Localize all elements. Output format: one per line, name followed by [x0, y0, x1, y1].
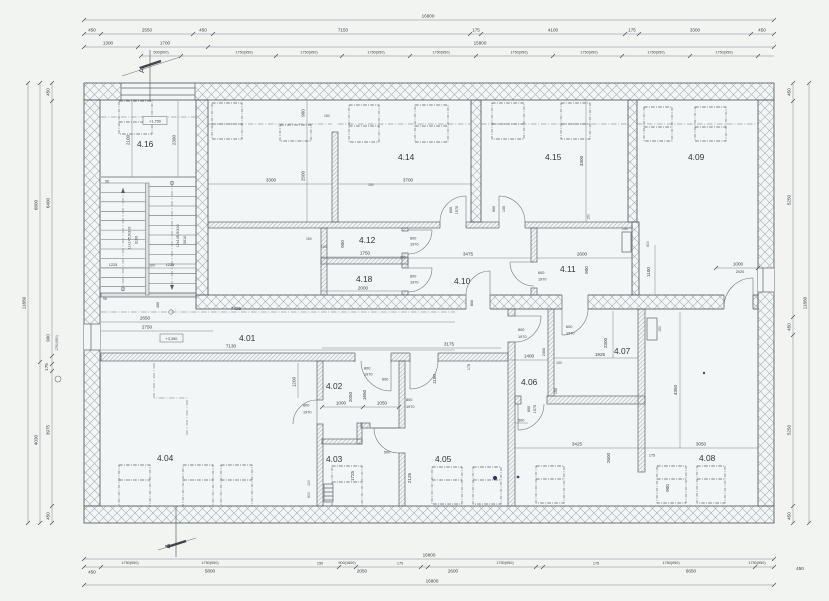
svg-text:1750(950): 1750(950)	[432, 51, 450, 55]
svg-text:1750(950): 1750(950)	[235, 51, 253, 55]
svg-text:3050: 3050	[696, 442, 707, 447]
svg-text:150: 150	[554, 388, 558, 394]
svg-text:2390: 2390	[172, 134, 177, 145]
svg-text:2300: 2300	[542, 348, 546, 356]
svg-text:100: 100	[321, 245, 327, 249]
svg-text:175: 175	[44, 363, 49, 371]
svg-text:100: 100	[502, 206, 506, 212]
svg-text:5250: 5250	[787, 194, 792, 205]
svg-text:800: 800	[303, 404, 309, 408]
svg-text:100: 100	[556, 361, 562, 365]
svg-text:800: 800	[364, 367, 370, 371]
svg-text:4.08: 4.08	[699, 453, 716, 463]
svg-text:4.04: 4.04	[157, 453, 174, 463]
svg-text:800: 800	[406, 398, 412, 402]
svg-text:1750(950): 1750(950)	[201, 561, 219, 565]
svg-text:1750(950): 1750(950)	[510, 51, 528, 55]
svg-text:7150: 7150	[338, 28, 349, 33]
svg-text:1200: 1200	[292, 376, 297, 387]
svg-text:16800: 16800	[426, 579, 439, 584]
svg-text:450: 450	[787, 88, 792, 96]
svg-text:150: 150	[587, 214, 591, 220]
svg-text:450: 450	[88, 570, 96, 575]
svg-text:450: 450	[758, 28, 766, 33]
svg-text:1750(950): 1750(950)	[55, 335, 59, 350]
svg-text:150: 150	[317, 562, 323, 566]
svg-text:4.11: 4.11	[560, 264, 576, 274]
svg-text:1750(950): 1750(950)	[496, 561, 514, 565]
svg-text:2100: 2100	[126, 134, 131, 145]
svg-text:2600: 2600	[448, 569, 459, 574]
svg-text:1750: 1750	[360, 251, 371, 256]
svg-text:11880: 11880	[803, 296, 808, 309]
svg-text:900: 900	[492, 206, 496, 212]
svg-text:58: 58	[105, 180, 109, 184]
svg-text:2050: 2050	[348, 391, 353, 402]
svg-text:16800: 16800	[422, 14, 435, 19]
svg-text:900: 900	[584, 266, 589, 274]
svg-text:2600: 2600	[606, 452, 611, 463]
svg-text:3300: 3300	[266, 178, 277, 183]
svg-text:600: 600	[527, 406, 531, 412]
svg-text:4350: 4350	[673, 384, 678, 395]
svg-text:4.15: 4.15	[545, 152, 562, 162]
svg-text:6800: 6800	[34, 199, 39, 210]
svg-text:1750(950): 1750(950)	[121, 561, 139, 565]
svg-text:4.16: 4.16	[137, 139, 154, 149]
svg-text:2500: 2500	[301, 170, 306, 181]
svg-text:5250: 5250	[787, 424, 792, 435]
svg-text:4.03: 4.03	[326, 454, 343, 464]
svg-text:1750(950): 1750(950)	[580, 51, 598, 55]
svg-text:4.01: 4.01	[239, 333, 256, 343]
svg-text:600: 600	[307, 492, 311, 498]
svg-text:450: 450	[787, 323, 792, 331]
svg-text:2300: 2300	[603, 337, 608, 348]
svg-text:+3,350: +3,350	[166, 337, 178, 341]
svg-text:1000: 1000	[336, 401, 347, 406]
svg-text:600: 600	[538, 271, 544, 275]
svg-text:1000: 1000	[733, 262, 744, 267]
svg-text:600: 600	[646, 241, 650, 247]
svg-text:+1,750: +1,750	[149, 120, 161, 124]
svg-text:1970: 1970	[566, 332, 574, 336]
svg-text:175: 175	[467, 364, 471, 370]
svg-text:1725: 1725	[350, 470, 355, 481]
svg-text:1970: 1970	[455, 206, 459, 214]
svg-text:2750: 2750	[142, 325, 153, 330]
svg-text:11x145,9/310: 11x145,9/310	[128, 227, 132, 250]
svg-text:4100: 4100	[548, 28, 559, 33]
svg-text:175: 175	[397, 562, 403, 566]
svg-text:900(1800): 900(1800)	[338, 561, 356, 565]
svg-text:3475: 3475	[463, 252, 474, 257]
svg-text:100: 100	[307, 480, 311, 486]
svg-text:1400: 1400	[524, 354, 535, 359]
svg-text:1970: 1970	[406, 405, 414, 409]
svg-text:4.12: 4.12	[359, 235, 376, 245]
svg-text:7425: 7425	[231, 306, 242, 311]
svg-text:1300: 1300	[103, 41, 114, 46]
svg-text:4.05: 4.05	[435, 454, 452, 464]
svg-text:150: 150	[622, 227, 628, 231]
svg-text:3425: 3425	[572, 442, 583, 447]
svg-text:4.14: 4.14	[398, 152, 415, 162]
svg-text:450: 450	[46, 88, 51, 96]
svg-text:1225: 1225	[109, 263, 117, 267]
svg-text:500(500): 500(500)	[153, 51, 169, 55]
svg-text:1970: 1970	[518, 335, 526, 339]
svg-text:6400: 6400	[46, 197, 51, 208]
svg-text:6650: 6650	[686, 569, 697, 574]
svg-text:175: 175	[472, 28, 480, 33]
svg-text:2600: 2600	[577, 252, 588, 257]
svg-text:500: 500	[518, 419, 524, 423]
svg-text:150: 150	[368, 183, 374, 187]
svg-text:1750(950): 1750(950)	[662, 561, 680, 565]
svg-text:7130: 7130	[226, 344, 237, 349]
svg-text:1970: 1970	[303, 411, 311, 415]
svg-text:A: A	[165, 543, 172, 548]
svg-text:2125: 2125	[407, 472, 412, 483]
svg-text:450: 450	[787, 512, 792, 520]
svg-text:4.09: 4.09	[688, 152, 705, 162]
svg-text:100: 100	[400, 256, 406, 260]
svg-text:1925: 1925	[595, 352, 606, 357]
svg-text:900: 900	[340, 240, 345, 248]
svg-text:1970: 1970	[533, 405, 537, 413]
svg-text:2000: 2000	[358, 286, 369, 291]
svg-text:4.02: 4.02	[326, 381, 343, 391]
svg-text:175: 175	[593, 562, 599, 566]
svg-text:3175: 3175	[444, 342, 455, 347]
svg-text:3300: 3300	[579, 155, 584, 166]
svg-text:3975: 3975	[46, 424, 51, 435]
svg-text:500: 500	[384, 451, 390, 455]
svg-text:3300: 3300	[690, 28, 701, 33]
svg-text:11880: 11880	[22, 296, 27, 309]
svg-text:3100: 3100	[135, 236, 139, 244]
svg-text:600: 600	[566, 325, 572, 329]
svg-text:98: 98	[103, 297, 107, 301]
svg-text:800: 800	[518, 328, 524, 332]
svg-text:1150: 1150	[432, 374, 437, 384]
svg-text:450: 450	[796, 566, 804, 571]
svg-text:1970: 1970	[364, 373, 372, 377]
svg-text:4.07: 4.07	[614, 346, 631, 356]
svg-text:4.18: 4.18	[356, 274, 373, 284]
svg-text:2020: 2020	[736, 270, 744, 274]
svg-text:600: 600	[382, 378, 388, 382]
svg-text:1750(950): 1750(950)	[300, 51, 318, 55]
svg-text:450: 450	[88, 28, 96, 33]
svg-text:1750(950): 1750(950)	[715, 51, 733, 55]
svg-text:A′: A′	[139, 66, 146, 73]
svg-text:2550: 2550	[142, 28, 153, 33]
svg-text:3010: 3010	[183, 236, 187, 244]
svg-text:4030: 4030	[34, 434, 39, 445]
svg-text:175: 175	[628, 28, 636, 33]
svg-text:900: 900	[46, 334, 51, 342]
svg-text:600: 600	[410, 237, 416, 241]
svg-text:1650: 1650	[362, 389, 367, 400]
svg-text:4.06: 4.06	[521, 377, 538, 387]
svg-text:150: 150	[658, 326, 662, 332]
svg-text:900: 900	[665, 484, 670, 492]
svg-text:1970: 1970	[410, 243, 418, 247]
svg-text:800: 800	[449, 207, 453, 213]
svg-text:175: 175	[649, 454, 655, 458]
svg-text:1050: 1050	[377, 401, 388, 406]
svg-text:3700: 3700	[403, 178, 414, 183]
svg-text:16800: 16800	[423, 553, 436, 558]
svg-text:100: 100	[149, 264, 155, 268]
svg-text:150: 150	[324, 114, 330, 118]
svg-text:15800: 15800	[474, 41, 487, 46]
svg-text:1225: 1225	[166, 263, 174, 267]
svg-text:900: 900	[301, 109, 306, 117]
svg-text:1750(950): 1750(950)	[367, 51, 385, 55]
svg-text:2650: 2650	[140, 316, 151, 321]
svg-text:150: 150	[306, 237, 312, 241]
svg-text:450: 450	[46, 512, 51, 520]
svg-text:450: 450	[199, 28, 207, 33]
svg-text:12x145,9/310: 12x145,9/310	[176, 224, 180, 247]
svg-text:1100: 1100	[646, 267, 651, 277]
svg-text:2050: 2050	[357, 569, 368, 574]
svg-text:1750(950): 1750(950)	[647, 51, 665, 55]
svg-text:5800: 5800	[205, 569, 216, 574]
svg-text:600: 600	[410, 275, 416, 279]
svg-text:1970: 1970	[538, 278, 546, 282]
svg-text:1700: 1700	[160, 41, 171, 46]
svg-text:800: 800	[470, 300, 474, 306]
svg-text:1970: 1970	[410, 281, 418, 285]
svg-text:1750(950): 1750(950)	[748, 561, 766, 565]
svg-text:450: 450	[156, 302, 160, 308]
